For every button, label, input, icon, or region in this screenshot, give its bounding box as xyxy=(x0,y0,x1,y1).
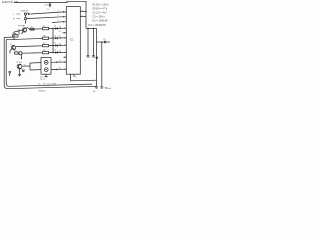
svg-text:17: 17 xyxy=(59,60,61,62)
svg-text:+12V: +12V xyxy=(44,4,50,6)
svg-text:81to5: 81to5 xyxy=(106,87,112,90)
svg-text:T1: T1 xyxy=(22,26,24,28)
svg-text:T2: T2 xyxy=(10,44,12,46)
wire row1 xyxy=(30,28,43,31)
capacitor C4 xyxy=(54,35,58,39)
svg-text:14: 14 xyxy=(59,44,61,46)
svg-text:T4, T5: T4, T5 xyxy=(40,79,45,81)
node summing bus xyxy=(52,29,54,54)
transistor T1 xyxy=(22,26,27,32)
svg-text:1: 1 xyxy=(82,15,83,17)
svg-text:C3 = 100 n: C3 = 100 n xyxy=(93,16,106,19)
wire IC right pin B xyxy=(80,16,86,18)
transistor T3 xyxy=(16,62,22,69)
wire J2 to IC xyxy=(27,17,67,19)
capacitor C5 xyxy=(54,43,58,47)
op-amp U2 block xyxy=(40,58,51,81)
capacitor C7 xyxy=(85,56,90,62)
svg-text:16: 16 xyxy=(59,51,61,53)
transistor T2 xyxy=(10,44,16,50)
svg-text:C4: C4 xyxy=(54,35,56,37)
wire jack sleeves down xyxy=(25,15,27,17)
node junction dot row3 xyxy=(52,45,53,46)
svg-text:9: 9 xyxy=(82,10,83,12)
svg-text:T1 ... T3 = BC 547B: T1 ... T3 = BC 547B xyxy=(38,83,57,85)
node junction dot row4 xyxy=(52,52,53,53)
resistor R4 xyxy=(43,50,49,54)
wire IC pin stub low xyxy=(64,56,67,58)
wire base feed T1 xyxy=(14,30,22,32)
svg-text:T3 47k: T3 47k xyxy=(16,62,22,64)
svg-text:C1: C1 xyxy=(47,9,49,11)
wire IC bottom to ground bus xyxy=(71,74,97,81)
resistor R9 xyxy=(17,27,34,35)
svg-text:R1,R2 = 100 k: R1,R2 = 100 k xyxy=(93,4,110,7)
svg-text:R3: R3 xyxy=(14,50,16,52)
svg-text:C5: C5 xyxy=(54,43,56,45)
node IC bottom pin tick xyxy=(73,74,75,77)
resistor R3 xyxy=(43,43,49,47)
wire row2 xyxy=(6,38,43,39)
capacitor C1 xyxy=(28,13,31,15)
wire T1 collector to row1 xyxy=(26,28,30,30)
svg-text:D1 = 1N4148: D1 = 1N4148 xyxy=(93,20,108,23)
svg-text:R7: R7 xyxy=(43,43,45,45)
wire left feed xyxy=(13,32,15,39)
svg-text:10: 10 xyxy=(59,27,61,29)
node junction dot row2 xyxy=(52,37,53,38)
svg-text:1k: 1k xyxy=(24,65,26,67)
svg-text:C9: C9 xyxy=(103,39,105,41)
svg-text:5: 5 xyxy=(58,15,59,17)
wire T3 out xyxy=(22,65,30,67)
svg-text:8: 8 xyxy=(75,77,76,79)
resistor R2 xyxy=(43,35,49,39)
svg-text:10k: 10k xyxy=(17,30,20,32)
svg-text:1k: 1k xyxy=(31,27,33,29)
node junction dot row1 left xyxy=(29,29,30,30)
svg-text:100n: 100n xyxy=(21,69,25,71)
wire opamp B out xyxy=(51,68,66,70)
ground under T3 xyxy=(18,69,21,76)
wire opamp A out xyxy=(51,61,66,63)
svg-text:C3: C3 xyxy=(54,26,56,28)
node pin labels rows xyxy=(59,27,61,70)
capacitor C6 xyxy=(54,50,58,54)
wire left rail outer xyxy=(4,38,96,89)
node junction dot row1 xyxy=(52,28,53,29)
svg-text:R3,R4 = 47 k: R3,R4 = 47 k xyxy=(93,8,108,11)
wire top right link xyxy=(97,41,111,43)
wire mid rail xyxy=(93,28,95,55)
wire row2 to IC xyxy=(49,37,67,39)
wire split to opamp block xyxy=(29,63,31,70)
wire +V top rail xyxy=(14,1,86,28)
node junction dot right rail xyxy=(85,11,86,12)
connector J1 xyxy=(24,13,26,15)
wire row4 xyxy=(22,52,42,54)
svg-text:11: 11 xyxy=(59,31,61,33)
svg-text:3: 3 xyxy=(58,10,59,12)
capacitor C8 xyxy=(92,56,98,62)
wire third input row xyxy=(52,21,66,24)
capacitor C3 xyxy=(54,26,58,30)
svg-text:7: 7 xyxy=(58,20,59,22)
wire right rail B- xyxy=(101,42,103,87)
svg-text:R6: R6 xyxy=(43,35,45,37)
potentiometer P1 xyxy=(13,33,19,37)
wire IC right pin A xyxy=(80,11,86,13)
capacitor C10 xyxy=(9,72,12,77)
capacitor C11 xyxy=(21,69,25,72)
svg-text:C6: C6 xyxy=(54,50,56,52)
wire J1 to IC xyxy=(31,12,67,14)
node junction dots IC left pins xyxy=(64,28,65,29)
wire rail tops xyxy=(4,36,14,39)
wire IC pin stub mid xyxy=(63,32,67,34)
wire left rail inner xyxy=(6,40,92,87)
wire right rail V+ xyxy=(86,27,97,29)
svg-text:R5: R5 xyxy=(43,26,45,28)
svg-text:P1: P1 xyxy=(13,33,15,35)
svg-text:IC1 = LM3915N: IC1 = LM3915N xyxy=(88,24,106,27)
ground under U2 xyxy=(45,74,47,76)
wire T2 emitter down xyxy=(10,49,12,53)
node junction dots at IC top pins xyxy=(63,11,64,12)
svg-text:C1,C2 = 4n7: C1,C2 = 4n7 xyxy=(93,12,108,15)
capacitor C9 xyxy=(103,39,106,43)
node mixer cluster xyxy=(14,50,22,59)
node +12V tap xyxy=(44,3,51,11)
battery BT1 xyxy=(93,87,108,93)
node parts list text xyxy=(88,4,109,28)
wire row1 to bus xyxy=(49,27,67,29)
svg-text:81465-2: 81465-2 xyxy=(39,90,46,92)
wire row3 xyxy=(16,45,43,48)
node junction dot opamp A xyxy=(56,62,57,63)
wire row3 to IC xyxy=(49,44,67,46)
node caption text xyxy=(38,83,57,92)
op-amp IC1 xyxy=(66,7,80,75)
connector J2 xyxy=(24,17,26,19)
svg-text:12: 12 xyxy=(59,36,61,38)
svg-text:LINE IN: LINE IN xyxy=(21,10,29,12)
svg-text:18: 18 xyxy=(59,68,61,70)
svg-text:R8: R8 xyxy=(43,50,45,52)
wire right rail B+ xyxy=(96,28,98,87)
resistor R1 xyxy=(43,26,49,30)
wire row4 to IC xyxy=(49,51,67,53)
node junction dot opamp B xyxy=(56,69,57,70)
